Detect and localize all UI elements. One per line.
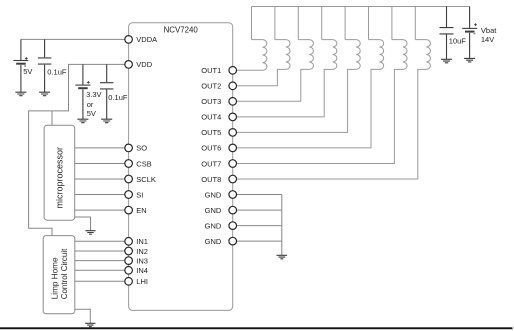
wire VDD supply rail xyxy=(29,64,126,235)
ground (microprocessor) xyxy=(85,231,95,235)
relay coil L4 xyxy=(322,40,337,70)
pin GND xyxy=(205,206,237,215)
pin IN1 xyxy=(125,237,148,246)
svg-text:10uF: 10uF xyxy=(449,36,467,45)
svg-text:0.1uF: 0.1uF xyxy=(108,93,128,102)
IC NCV7240 U1 xyxy=(129,23,233,311)
svg-text:OUT2: OUT2 xyxy=(201,82,221,91)
ground (Vbat) xyxy=(464,58,475,62)
pin IN4 xyxy=(125,266,148,275)
wire GND bus xyxy=(236,195,281,256)
pin VDDA xyxy=(125,35,157,44)
wire coil 8 feed xyxy=(414,7,416,40)
pin CSB xyxy=(125,159,152,168)
wire coil 5 feed xyxy=(344,7,346,40)
svg-text:OUT3: OUT3 xyxy=(201,97,221,106)
capacitor C3 10uF xyxy=(440,7,454,60)
svg-text:CSB: CSB xyxy=(136,159,151,168)
wire coil 2 feed xyxy=(274,7,276,40)
svg-text:SI: SI xyxy=(136,190,143,199)
capacitor C1 0.1uF (VDDA) xyxy=(38,39,51,92)
wire coil 6 feed xyxy=(368,7,370,40)
svg-text:LHI: LHI xyxy=(136,277,148,286)
wire EN xyxy=(75,209,126,211)
wire coil 3 feed xyxy=(297,7,299,40)
pin OUT8 xyxy=(201,175,236,184)
svg-text:3.3V: 3.3V xyxy=(86,90,101,99)
ground (10uF cap) xyxy=(441,59,452,63)
pin SCLK xyxy=(125,175,156,184)
svg-text:0.1uF: 0.1uF xyxy=(47,67,67,76)
pin OUT1 xyxy=(201,66,236,75)
svg-text:OUT1: OUT1 xyxy=(201,66,221,75)
battery 3.3V or 5V xyxy=(75,64,90,119)
svg-text:SO: SO xyxy=(136,144,147,153)
pin OUT2 xyxy=(201,82,236,91)
page rule line xyxy=(0,327,513,329)
wire OUT8 to coil 8 xyxy=(236,69,426,179)
svg-text:GND: GND xyxy=(205,190,222,199)
pin IN2 xyxy=(125,247,148,256)
wire OUT6 to coil 6 xyxy=(236,69,379,147)
pin VDD xyxy=(125,60,153,69)
wire OUT7 to coil 7 xyxy=(236,69,403,163)
svg-text:VDDA: VDDA xyxy=(136,35,157,44)
relay coil L8 xyxy=(415,40,430,70)
svg-text:14V: 14V xyxy=(481,35,494,44)
svg-text:OUT7: OUT7 xyxy=(201,159,221,168)
wire microprocessor ground stub xyxy=(75,217,91,231)
pin OUT4 xyxy=(201,113,236,122)
wire OUT1 to coil 1 xyxy=(236,69,262,71)
svg-text:IN3: IN3 xyxy=(136,256,148,265)
pin EN xyxy=(125,206,147,215)
svg-text:OUT6: OUT6 xyxy=(201,144,221,153)
pin OUT5 xyxy=(201,128,236,137)
pin SI xyxy=(125,190,144,199)
relay coil L7 xyxy=(392,40,407,70)
wire coil 7 feed xyxy=(391,7,393,40)
ground (5V battery) xyxy=(15,92,26,96)
ground (limp home) xyxy=(85,323,95,326)
svg-text:SCLK: SCLK xyxy=(136,175,156,184)
svg-text:5V: 5V xyxy=(23,67,32,76)
microprocessor U2 xyxy=(44,125,75,220)
svg-text:Vbat: Vbat xyxy=(481,26,497,35)
wire SI xyxy=(75,194,126,196)
wire CSB xyxy=(75,163,126,165)
wire LHI xyxy=(75,280,126,282)
wire IN4 xyxy=(75,269,126,271)
svg-text:IN2: IN2 xyxy=(136,247,148,256)
ground (3.3V battery) xyxy=(77,119,88,123)
ground (0.1uF VDDA cap) xyxy=(39,92,50,96)
pin GND xyxy=(205,221,237,230)
svg-text:GND: GND xyxy=(205,206,222,215)
relay coil L1 xyxy=(252,40,267,71)
svg-text:Control Circuit: Control Circuit xyxy=(60,248,69,299)
wire OUT2 to coil 2 xyxy=(236,69,286,85)
svg-text:OUT5: OUT5 xyxy=(201,128,221,137)
svg-text:VDD: VDD xyxy=(136,60,152,69)
svg-text:GND: GND xyxy=(205,221,222,230)
wire IN3 xyxy=(75,260,126,262)
svg-text:NCV7240: NCV7240 xyxy=(164,26,199,35)
pin OUT3 xyxy=(201,97,236,106)
ground (0.1uF VDD cap) xyxy=(101,119,112,123)
wire coil 4 feed xyxy=(321,7,323,40)
wire OUT5 to coil 5 xyxy=(236,69,356,132)
svg-text:OUT8: OUT8 xyxy=(201,175,221,184)
relay coil L2 xyxy=(275,40,290,70)
wire IN2 xyxy=(75,250,126,252)
svg-text:microprocessor: microprocessor xyxy=(55,147,65,209)
svg-text:GND: GND xyxy=(205,237,222,246)
pin SO xyxy=(125,144,148,153)
svg-text:IN4: IN4 xyxy=(136,266,148,275)
wire OUT4 to coil 4 xyxy=(236,69,332,117)
relay coil L6 xyxy=(369,40,384,70)
relay coil L5 xyxy=(345,40,360,70)
pin GND xyxy=(205,237,237,246)
ground (GND pins) xyxy=(277,255,288,258)
wire OUT3 to coil 3 xyxy=(236,69,309,101)
svg-text:or: or xyxy=(87,100,94,109)
pin LHI xyxy=(125,277,148,286)
capacitor C2 0.1uF (VDD) xyxy=(100,64,113,119)
relay coil L3 xyxy=(298,40,313,70)
wire SO xyxy=(75,147,126,149)
svg-text:5V: 5V xyxy=(87,109,96,118)
pin IN3 xyxy=(125,256,148,265)
wire limp-home ground stub xyxy=(75,309,91,323)
wire Vbat top rail xyxy=(252,6,470,8)
wire IN1 xyxy=(75,240,126,242)
svg-text:EN: EN xyxy=(136,206,146,215)
Limp Home Control Circuit block xyxy=(43,236,75,314)
battery 5V xyxy=(13,39,28,92)
battery Vbat 14V xyxy=(462,7,477,59)
wire coil 1 feed xyxy=(251,7,253,40)
svg-text:IN1: IN1 xyxy=(136,237,148,246)
wire SCLK xyxy=(75,178,126,180)
pin GND xyxy=(205,190,237,199)
svg-text:OUT4: OUT4 xyxy=(201,113,221,122)
svg-text:Limp Home: Limp Home xyxy=(50,257,59,299)
wire VDDA supply rail xyxy=(21,38,126,40)
pin OUT7 xyxy=(201,159,236,168)
pin OUT6 xyxy=(201,144,236,153)
